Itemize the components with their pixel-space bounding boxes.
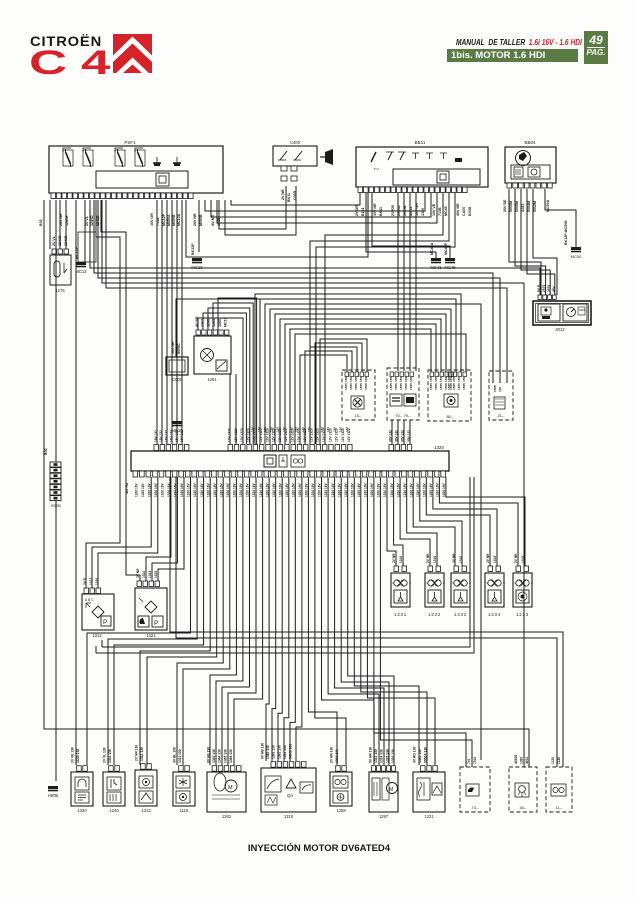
svg-text:2V GR: 2V GR [355, 205, 359, 216]
horn symbol [320, 149, 333, 165]
svg-text:2V VL 130: 2V VL 130 [103, 747, 107, 763]
sensor 1321 internals [138, 598, 163, 627]
svg-text:A311: A311 [521, 204, 525, 212]
BB11 connector pin row [358, 187, 467, 193]
svg-text:1321: 1321 [146, 633, 156, 638]
svg-text:150: 150 [409, 377, 413, 382]
harness ring wire ECU to right units [290, 329, 431, 444]
wire PSF1 to ECU top pin [166, 200, 168, 444]
svg-text:RPM: RPM [579, 309, 585, 312]
svg-text:B00D: B00D [468, 206, 472, 216]
svg-text:1240: 1240 [109, 808, 119, 813]
long harness wire across page [90, 200, 540, 295]
wire PSF1 to relay 1276 [65, 200, 67, 249]
harness wire lower a [102, 477, 470, 647]
svg-text:P: P [103, 619, 107, 626]
svg-text:1341 130: 1341 130 [108, 749, 112, 763]
diagram caption [0, 843, 638, 854]
svg-text:3V RG 130: 3V RG 130 [413, 747, 417, 763]
svg-text:1505: 1505 [493, 385, 497, 392]
wire 1261 bottom to ECU b [235, 374, 237, 444]
stub b [95, 646, 97, 653]
svg-text:BK12P MC50B: BK12P MC50B [564, 220, 568, 245]
relay 1276 outline [50, 255, 71, 285]
svg-text:1505: 1505 [452, 383, 456, 390]
svg-text:16V GR: 16V GR [150, 213, 154, 226]
wire 1261 to ECU top [198, 318, 243, 444]
svg-text:130: 130 [251, 427, 255, 432]
injector 1331 [391, 573, 411, 607]
svg-text:130: 130 [307, 427, 311, 432]
wire ECU to sensor 1258 [308, 477, 337, 765]
wire ECU to injector [387, 477, 396, 566]
green section bar MOTOR 1.6 HDI [447, 49, 578, 62]
relay 1276 element [54, 261, 67, 277]
header title MANUAL DE TALLER [456, 37, 582, 47]
wire ECU to sensor 1321 [158, 477, 184, 581]
wire ECU to injector [426, 477, 490, 566]
dashed unit 73 [460, 767, 490, 812]
air flow meter 1310 [261, 768, 316, 812]
wire ECU to unit 1310 [272, 477, 276, 761]
switch contacts in C400 [278, 151, 302, 160]
EGR valve 1362 [207, 772, 246, 812]
svg-text:10V VE: 10V VE [432, 203, 436, 216]
wire PSF1 to relay 1276 [59, 200, 61, 249]
svg-text:C400: C400 [290, 140, 301, 145]
ground H00B [48, 786, 59, 798]
svg-text:MC12P: MC12P [162, 213, 166, 226]
svg-text:1313: 1313 [141, 808, 151, 813]
Citroen double chevron logo [113, 34, 152, 73]
wire PSF1 to ECU top pin [161, 200, 163, 444]
wire ECU to unit 1310 [284, 477, 289, 761]
valve 1261 motor [201, 349, 214, 362]
svg-text:150: 150 [447, 377, 451, 382]
wire PSF1 to ECU top pin [171, 200, 173, 444]
svg-text:70-- 79--: 70-- 79-- [395, 413, 411, 418]
page number box 49 PAG [584, 31, 608, 64]
1240 pins [109, 766, 120, 772]
svg-text:5004M: 5004M [527, 201, 531, 212]
svg-text:B02: B02 [39, 219, 43, 226]
fuel pump 1221 [413, 772, 445, 812]
svg-text:AV NR: AV NR [211, 215, 215, 226]
BB04 connector icons [514, 167, 540, 177]
fuse box PSF1 outline [49, 146, 223, 193]
throttle body 1297 [369, 772, 398, 812]
wire ECU to ground MC10 below C001 [176, 427, 178, 444]
wire ECU to unit 1297 [348, 477, 394, 765]
sensor 1321 outline [135, 588, 167, 630]
svg-text:4030B: 4030B [514, 754, 518, 764]
pin cluster [390, 372, 414, 377]
connector strip B00B [50, 462, 61, 501]
dashed unit 11 [546, 767, 572, 812]
svg-text:1365 130: 1365 130 [223, 749, 227, 763]
wire ECU to unit 1297 [335, 477, 384, 765]
svg-text:3V NR: 3V NR [136, 568, 140, 578]
svg-text:MC45P: MC45P [444, 242, 448, 255]
1313 pins [141, 764, 152, 770]
fuse F2 in PSF1 [86, 149, 91, 167]
long wire PSF1 to sensor 1321 pin1 [101, 200, 140, 581]
svg-text:1320: 1320 [434, 445, 445, 450]
pin cluster [448, 372, 467, 377]
svg-text:MC10: MC10 [171, 428, 183, 433]
svg-text:2V NR: 2V NR [514, 553, 518, 563]
wire BB11 to ECU top [310, 193, 449, 444]
svg-text:130: 130 [339, 427, 343, 432]
svg-text:B02: B02 [44, 448, 48, 455]
wire ECU to sensor 1312 [92, 477, 151, 588]
svg-text:2V VL: 2V VL [85, 215, 89, 226]
coolant temp sensor 1240 [103, 772, 125, 806]
1276 pins [52, 249, 69, 254]
svg-text:130: 130 [326, 427, 330, 432]
injector 1332 [425, 573, 445, 607]
svg-text:1276: 1276 [55, 288, 65, 293]
connector C001 outline [166, 357, 188, 375]
wire ECU to engine sensor [210, 477, 236, 765]
wire ECU to pump 1221 [354, 477, 419, 765]
svg-text:1310: 1310 [284, 814, 294, 819]
wire 1261 bottom to ECU a [229, 374, 231, 444]
wire PSF1 to BB11 [205, 193, 425, 211]
wire B00B to ground H00B [55, 500, 57, 781]
svg-text:MC10: MC10 [224, 317, 228, 327]
relay contacts PSF1 [153, 157, 181, 166]
svg-text:5000M: 5000M [509, 201, 513, 212]
svg-text:MC10A: MC10A [177, 213, 181, 226]
svg-text:1240D: 1240D [90, 215, 94, 226]
ECU center connectors [264, 455, 305, 467]
wire ECU to engine sensor [140, 477, 210, 765]
wire ECU to engine sensor [228, 477, 256, 765]
1258 pins [336, 766, 347, 772]
harness ring wire ECU to right units [275, 314, 446, 444]
svg-text:1505: 1505 [344, 383, 348, 390]
wire B02 spine to unit 40 pin1 [44, 200, 529, 767]
svg-text:PSF1: PSF1 [124, 140, 136, 145]
wire ECU to unit 1297 [341, 477, 389, 765]
svg-text:1311 130: 1311 130 [178, 749, 182, 763]
ground MC46 [430, 258, 442, 270]
svg-text:1115: 1115 [180, 808, 189, 813]
svg-text:1505: 1505 [354, 383, 358, 390]
harness ring wire ECU to right units [285, 324, 436, 444]
PSF1 connector pin row [51, 193, 193, 199]
svg-text:130: 130 [332, 427, 336, 432]
valve 1261 outline [194, 336, 231, 374]
glow unit 1233 [513, 573, 533, 607]
instrument cluster 4012 [533, 301, 591, 325]
wire BB04 to cluster 4012 [509, 189, 541, 295]
fuse F14 in BB11 [386, 152, 406, 160]
wire ECU to engine sensor [147, 477, 217, 765]
svg-text:731: 731 [467, 758, 471, 764]
wire unit 70/79 to ECU top [409, 420, 411, 444]
svg-text:H00B: H00B [48, 793, 59, 798]
wire 1261 to ECU top [203, 313, 246, 444]
harness ring wire ECU to right units [295, 334, 466, 444]
wire to unit 11 b [176, 477, 557, 767]
wire 1261 to ECU top [218, 298, 257, 444]
svg-text:BB11: BB11 [415, 140, 426, 145]
ground MC10 [191, 258, 203, 270]
BB11 internal module [393, 169, 480, 185]
ground MC10 below C001 [171, 421, 183, 433]
wire PSF1 to ground MC10 [198, 200, 200, 252]
wire ECU to pump 1221 [361, 477, 427, 765]
svg-text:150: 150 [434, 377, 438, 382]
wire PSF1 to BB11 low route [186, 193, 368, 257]
ground MC50 [571, 247, 581, 252]
wire ECU to unit 1310 [278, 477, 282, 761]
svg-text:3V BL 130: 3V BL 130 [173, 747, 177, 763]
1297 pins [372, 766, 396, 772]
long harness wire across page [94, 200, 493, 383]
svg-text:1505: 1505 [429, 383, 433, 390]
wire unit 15 to ECU top [315, 343, 362, 444]
svg-text:1340: 1340 [421, 208, 425, 216]
svg-text:1362: 1362 [222, 814, 232, 819]
ground MC45 [444, 258, 456, 270]
svg-text:1505: 1505 [447, 383, 451, 390]
svg-text:1316: 1316 [493, 556, 497, 563]
PSF1 internal connector [156, 173, 169, 186]
svg-text:150: 150 [462, 377, 466, 382]
svg-text:1334: 1334 [488, 612, 501, 617]
harness ring wire ECU to right units [260, 299, 456, 444]
wire BB11 to unit 70/79 [403, 193, 405, 371]
wire 1261 to ECU top [208, 308, 250, 444]
connector C400 outline [273, 146, 317, 166]
battery symbol in BB04 [516, 151, 531, 166]
wire PSF1 to connector B00B [55, 200, 57, 462]
long harness wire across page [106, 200, 507, 383]
wire ECU to unit 1310 [290, 477, 295, 761]
svg-text:130: 130 [276, 427, 280, 432]
dashed unit 21 [489, 371, 513, 420]
ECU top pins group A [154, 445, 189, 451]
1233 pins [516, 566, 529, 572]
fuse box BB11 outline [356, 147, 488, 187]
C400 pins [281, 166, 297, 171]
crankshaft sensor 1313 [135, 770, 157, 806]
svg-text:P: P [154, 620, 158, 627]
svg-text:1313 130: 1313 130 [374, 749, 378, 763]
svg-text:1505: 1505 [404, 383, 408, 390]
wire BB04 to cluster 4012 [521, 189, 550, 295]
wire PSF1 to BB11 [217, 193, 437, 223]
svg-text:1316: 1316 [399, 556, 403, 563]
svg-text:1312: 1312 [92, 633, 102, 638]
svg-text:1140: 1140 [557, 757, 561, 764]
4012 pins [538, 295, 556, 300]
BB11 internal connector [437, 171, 449, 183]
dashed unit 80 [428, 370, 471, 421]
harness ring wire ECU to right units [255, 294, 461, 444]
fuel heater 1320 [71, 772, 93, 806]
svg-text:4012: 4012 [555, 327, 565, 332]
1333 pins [454, 566, 467, 572]
svg-text:1505: 1505 [364, 383, 368, 390]
wire BB11 to ground MC46 [366, 193, 436, 258]
svg-text:46V: 46V [552, 285, 556, 292]
wire BB11 to ground MC45 [372, 193, 450, 258]
sensor 1312 outline [82, 594, 114, 630]
svg-text:1331: 1331 [394, 612, 407, 617]
wire unit 15 to ECU top [320, 339, 367, 444]
wire ECU to sensor 1258 [315, 477, 346, 765]
svg-text:BK11: BK11 [287, 193, 291, 202]
svg-text:1233: 1233 [516, 612, 529, 617]
svg-text:130: 130 [301, 427, 305, 432]
long wire PSF1 to sensor 1312 pin A [86, 200, 120, 588]
svg-text:1316: 1316 [433, 556, 437, 563]
svg-text:1324: 1324 [148, 571, 152, 578]
valve 1261 sensor [216, 360, 227, 371]
wire ECU to pump 1221 [367, 477, 435, 765]
wire BB11 to unit 70/79 [397, 193, 399, 371]
svg-text:1320 16V: 1320 16V [161, 482, 165, 497]
wire ECU to engine sensor [216, 477, 243, 765]
wire ECU to injector [433, 477, 497, 566]
fuse links in PSF1 [63, 148, 143, 152]
svg-text:150: 150 [349, 377, 353, 382]
svg-text:7310: 7310 [473, 757, 477, 764]
pin cluster [345, 372, 369, 377]
dashed unit 15 (fan) [342, 370, 375, 420]
svg-text:16V 132: 16V 132 [164, 430, 168, 442]
svg-text:1505: 1505 [462, 383, 466, 390]
wire ECU to injector [394, 477, 403, 566]
svg-text:M: M [228, 785, 233, 791]
wire ECU to sensor 1321 [146, 477, 171, 581]
wire BB04 to ground MC50 [545, 189, 576, 247]
wire ECU to sensor 1321 [152, 477, 177, 581]
svg-text:F11: F11 [374, 167, 380, 171]
svg-text:2V NR: 2V NR [281, 189, 285, 200]
1332 pins [428, 566, 441, 572]
wire ECU to engine sensor [222, 477, 250, 765]
1334 pins [488, 566, 501, 572]
wire BB04 to 4012 right pin [533, 189, 557, 295]
svg-text:5002M: 5002M [533, 201, 537, 212]
wire BB11 to unit 70/79 [415, 193, 417, 371]
wire ECU to engine sensor [234, 477, 263, 765]
wire ECU to unit 73 b [380, 477, 472, 767]
wire BB11 to PSF1 left [231, 193, 360, 205]
svg-text:16V 132: 16V 132 [159, 430, 163, 442]
wire PSF1 to ECU top pin [176, 200, 178, 444]
svg-text:150: 150 [439, 377, 443, 382]
wire unit 15 to ECU top [310, 347, 357, 444]
1331 pins [394, 566, 407, 572]
svg-text:150: 150 [344, 377, 348, 382]
fuse F3 housing [115, 150, 125, 166]
fuse F1 in PSF1 [66, 149, 71, 167]
injector 1333 [451, 573, 471, 607]
wire ECU to injector [446, 477, 525, 566]
svg-text:MC50: MC50 [571, 254, 582, 259]
svg-text:1505: 1505 [359, 383, 363, 390]
ECU top pins group C [389, 445, 412, 451]
battery unit BB04 outline [505, 147, 556, 183]
svg-text:1320 16V: 1320 16V [193, 482, 197, 497]
svg-text:21--: 21-- [497, 413, 505, 418]
harness wire lower b [96, 477, 474, 653]
harness ring wire ECU to right units [270, 309, 451, 444]
wire PSF1 to BB11 [211, 193, 431, 217]
C400 harness pins [281, 176, 297, 181]
relay housing 1277 [78, 232, 96, 262]
wire unit 70/79 to ECU top [403, 420, 405, 444]
fuse F2 housing [83, 150, 93, 166]
svg-text:1258: 1258 [336, 808, 346, 813]
fuse F1 housing [63, 150, 73, 166]
svg-text:2V VL: 2V VL [52, 235, 56, 246]
svg-text:1314 130: 1314 130 [380, 749, 384, 763]
svg-text:2V VE 130: 2V VE 130 [71, 747, 75, 763]
wire BB11 to unit 70/79 [409, 193, 411, 371]
svg-text:1366 130: 1366 130 [229, 749, 233, 763]
wire ECU to unit 1310 [296, 477, 302, 761]
svg-text:15--: 15-- [354, 413, 362, 418]
stub a [101, 640, 103, 647]
svg-text:M: M [389, 787, 393, 793]
svg-text:M050B: M050B [172, 214, 176, 226]
svg-text:73--: 73-- [471, 805, 479, 810]
svg-text:150: 150 [364, 377, 368, 382]
wire unit 15 to ECU top [305, 351, 352, 444]
fuse F4 housing [135, 150, 145, 166]
svg-text:1312 130: 1312 130 [140, 747, 144, 761]
svg-text:6V HB 130: 6V HB 130 [261, 743, 265, 759]
svg-text:MC12: MC12 [75, 269, 87, 274]
sensor 1258 [330, 772, 352, 806]
svg-text:1297: 1297 [379, 814, 389, 819]
wire ECU to engine sensor [177, 477, 223, 765]
svg-text:MC45: MC45 [444, 206, 448, 216]
svg-text:2V HR 130: 2V HR 130 [330, 747, 334, 763]
pin cluster [430, 372, 454, 377]
svg-text:2V NR: 2V NR [426, 553, 430, 563]
1221 pins [421, 766, 438, 772]
svg-text:1320 16V: 1320 16V [141, 482, 145, 497]
svg-text:10V NR: 10V NR [373, 203, 377, 216]
svg-text:1505: 1505 [399, 383, 403, 390]
svg-text:2V NR 130: 2V NR 130 [135, 745, 139, 761]
svg-text:B131: B131 [361, 207, 365, 216]
svg-text:150: 150 [359, 377, 363, 382]
svg-text:BK12P: BK12P [191, 243, 195, 255]
svg-text:1505: 1505 [389, 383, 393, 390]
wire PSF1 to ECU top pin [181, 200, 183, 444]
wire ECU to injector [407, 477, 437, 566]
svg-text:150: 150 [429, 377, 433, 382]
wire ECU to unit 1297 [322, 477, 375, 765]
ECU top pins group B [228, 445, 352, 451]
svg-text:1505: 1505 [457, 383, 461, 390]
wire ECU to engine sensor [183, 477, 230, 765]
1362 pins [212, 766, 241, 772]
wire unit 70/79 to ECU top [397, 420, 399, 444]
svg-text:A B C: A B C [85, 598, 94, 602]
wire PSF1 to ECU top pin [156, 200, 158, 444]
svg-text:150: 150 [389, 377, 393, 382]
